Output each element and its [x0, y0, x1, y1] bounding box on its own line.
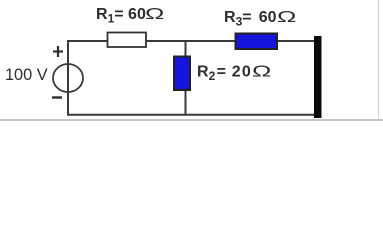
wire: middle vertical through R2	[185, 41, 187, 115]
svg-text:R1= 60: R1= 60	[96, 6, 146, 26]
faint frame: right vertical rule	[378, 0, 380, 119]
wire: left vertical through source	[67, 40, 69, 115]
svg-text:Ω: Ω	[277, 8, 296, 26]
svg-text:R2 = 20: R2 = 20	[197, 64, 252, 84]
wire: bottom horizontal	[67, 114, 318, 116]
short-circuit bar (right side)	[314, 36, 322, 118]
wire: top horizontal from source to bar	[68, 40, 316, 42]
resistor R3	[236, 34, 278, 50]
svg-text:100 V: 100 V	[5, 66, 48, 84]
svg-text:Ω: Ω	[145, 5, 164, 23]
plus polarity mark	[53, 46, 63, 57]
svg-text:R3= 60: R3= 60	[224, 9, 277, 29]
minus polarity mark	[52, 96, 62, 98]
resistor R1	[108, 33, 147, 48]
faint frame: bottom horizontal rule	[0, 119, 383, 121]
resistor R2	[174, 57, 190, 91]
svg-text:Ω: Ω	[252, 62, 271, 80]
voltage source V1 circle	[53, 64, 83, 92]
